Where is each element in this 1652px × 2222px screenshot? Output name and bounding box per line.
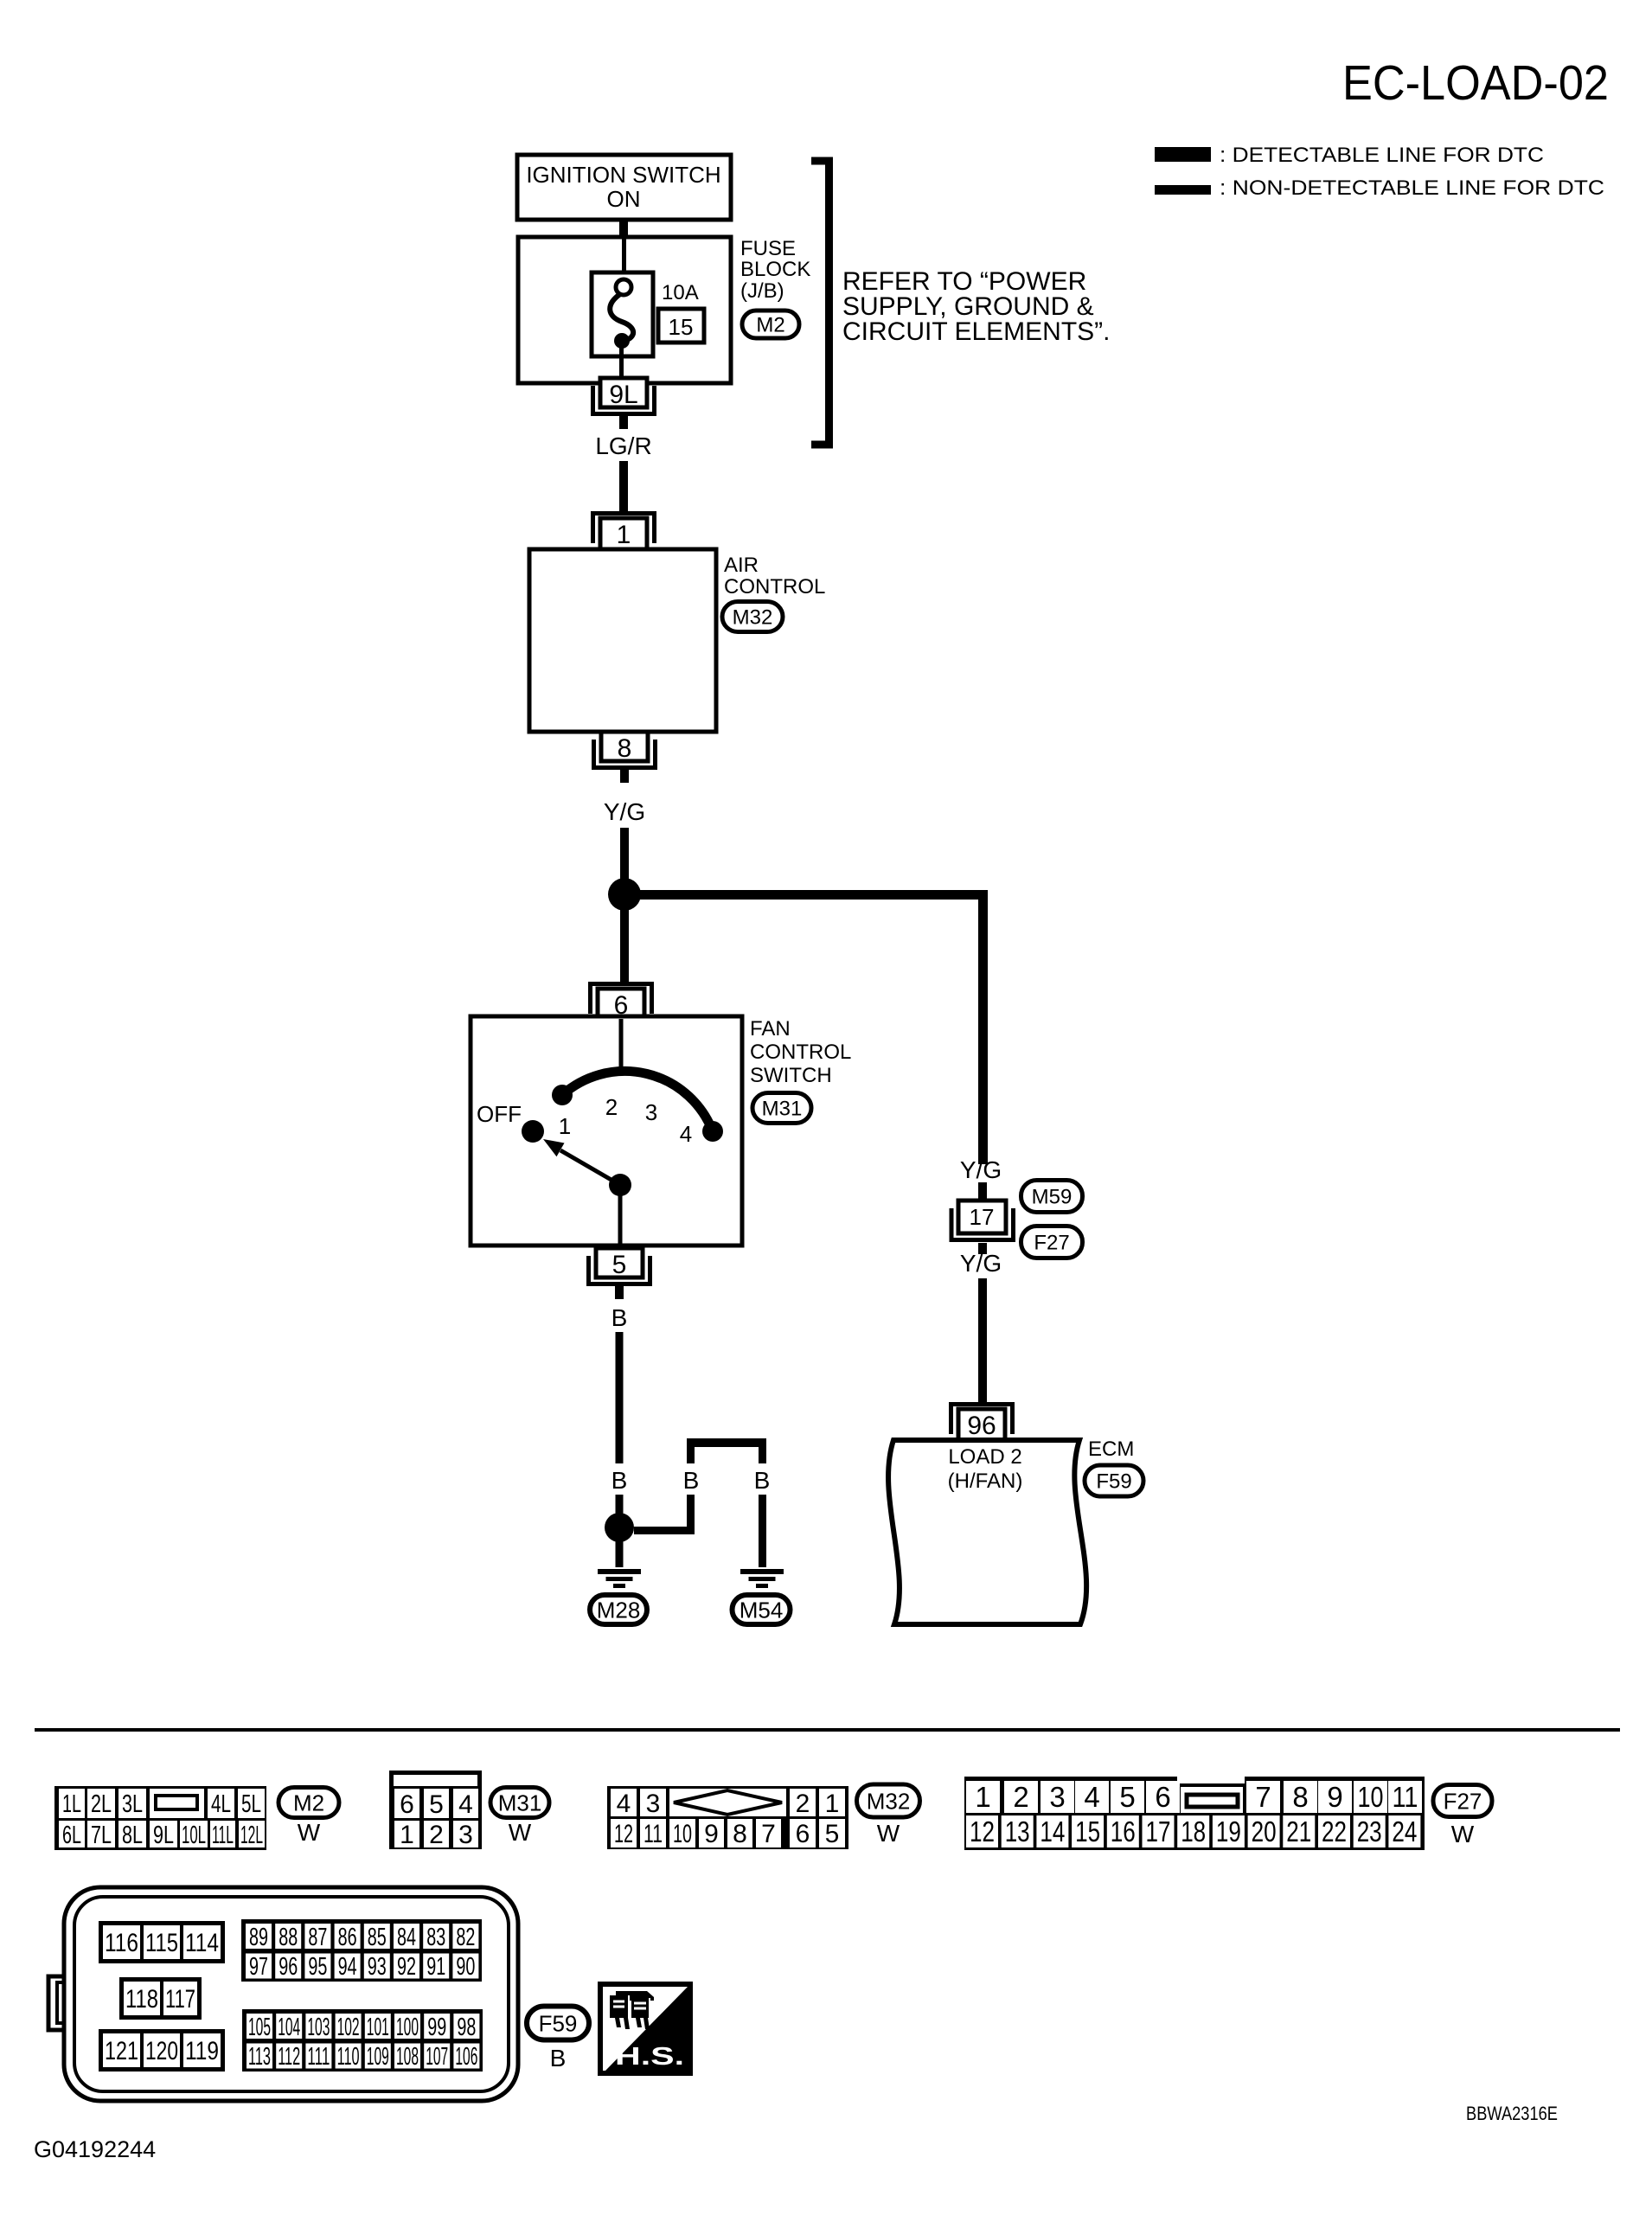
svg-text:107: 107 [426, 2043, 448, 2071]
svg-text:F59: F59 [1096, 1470, 1131, 1494]
svg-text:G04192244: G04192244 [34, 2136, 156, 2162]
svg-text:ECM: ECM [1088, 1438, 1134, 1461]
svg-text:Y/G: Y/G [604, 798, 645, 825]
wire: bridge top horizontal [687, 1438, 766, 1447]
connector terminal 96 (ECM LOAD 2) [951, 1405, 1013, 1441]
svg-text:W: W [877, 1820, 900, 1847]
fuse number 15 box [658, 309, 704, 343]
svg-text:22: 22 [1322, 1815, 1347, 1847]
svg-text:EC-LOAD-02: EC-LOAD-02 [1342, 55, 1609, 111]
svg-text:5: 5 [825, 1820, 840, 1848]
svg-text:17: 17 [970, 1204, 995, 1230]
svg-text:8L: 8L [122, 1822, 143, 1849]
svg-text:113: 113 [248, 2043, 271, 2071]
svg-text:M32: M32 [733, 606, 773, 630]
svg-text:1: 1 [400, 1821, 414, 1849]
svg-text:109: 109 [367, 2043, 389, 2071]
wire: connector 17 to Y/G label [978, 1243, 987, 1254]
svg-text:116: 116 [105, 1929, 138, 1957]
svg-text:1: 1 [825, 1790, 840, 1818]
svg-text:ON: ON [607, 186, 641, 212]
svg-text:B: B [683, 1467, 700, 1494]
svg-text:15: 15 [669, 314, 694, 340]
svg-text:93: 93 [368, 1953, 387, 1981]
svg-text:2: 2 [1013, 1781, 1028, 1813]
svg-text:87: 87 [308, 1924, 327, 1951]
svg-text:W: W [1451, 1821, 1475, 1847]
svg-text:2: 2 [429, 1821, 444, 1849]
svg-text:98: 98 [457, 2014, 476, 2041]
svg-text:5: 5 [612, 1251, 627, 1279]
svg-text:FUSE: FUSE [740, 237, 796, 260]
svg-text:3: 3 [1049, 1781, 1065, 1813]
wire: B to ground junction [616, 1495, 624, 1516]
svg-text:120: 120 [145, 2037, 178, 2065]
svg-text:IGNITION SWITCH: IGNITION SWITCH [526, 162, 720, 188]
svg-text:W: W [298, 1819, 321, 1846]
svg-text:M31: M31 [762, 1098, 803, 1121]
svg-text:6: 6 [400, 1790, 414, 1819]
svg-text:8: 8 [733, 1820, 747, 1848]
svg-text:: NON-DETECTABLE LINE FOR DTC: : NON-DETECTABLE LINE FOR DTC [1220, 176, 1604, 200]
svg-text:20: 20 [1252, 1815, 1277, 1847]
svg-text:103: 103 [307, 2014, 330, 2041]
legend: non-detectable line sample bar [1155, 185, 1211, 195]
svg-text:OFF: OFF [477, 1101, 522, 1127]
wire: wiper pivot to pin 5 [618, 1185, 623, 1245]
fuse block (J/B) box M2 [518, 237, 731, 383]
wire: Y/G down to ECM pin 96 [978, 1278, 987, 1402]
wire: bridge right vertical upper [759, 1440, 766, 1463]
svg-text:9L: 9L [609, 381, 637, 409]
fuse symbol [610, 279, 633, 349]
svg-text:M31: M31 [498, 1790, 542, 1815]
pinout F59 pin grid 105-98 / 113-106 [242, 2009, 483, 2072]
ground junction node [605, 1513, 634, 1542]
svg-text:M2: M2 [756, 314, 784, 337]
svg-text:4L: 4L [211, 1790, 231, 1818]
connector terminal 1 (air control input) [593, 514, 655, 550]
svg-text:15: 15 [1075, 1815, 1100, 1847]
svg-text:CIRCUIT ELEMENTS”.: CIRCUIT ELEMENTS”. [842, 317, 1110, 346]
ground symbol M54 [740, 1569, 784, 1588]
svg-text:9: 9 [1327, 1781, 1342, 1813]
svg-text:117: 117 [165, 1985, 195, 2014]
svg-text:2: 2 [605, 1094, 618, 1120]
svg-text:4: 4 [617, 1790, 631, 1818]
connector terminal 8 (air control output) [594, 732, 656, 783]
inline connector terminal 17 [951, 1201, 1014, 1240]
svg-text:4: 4 [1084, 1781, 1099, 1813]
svg-text:5L: 5L [241, 1790, 261, 1818]
svg-text:11: 11 [644, 1820, 663, 1848]
wire: bridge right vertical to M54 ground [759, 1495, 766, 1567]
svg-text:106: 106 [455, 2043, 477, 2071]
svg-text:96: 96 [279, 1953, 298, 1981]
svg-text:100: 100 [396, 2014, 419, 2041]
svg-text:18: 18 [1181, 1815, 1206, 1847]
pinout F59 pin group 121-119 [99, 2029, 225, 2072]
wire: ignition switch to fuse block [619, 220, 628, 237]
wire: Y/G stub to connector 17 [978, 1182, 987, 1200]
connector oval F59 [1085, 1465, 1143, 1496]
svg-text:102: 102 [337, 2014, 360, 2041]
svg-text:118: 118 [125, 1985, 158, 2014]
legend: detectable line sample bar [1155, 147, 1211, 162]
switch position labels [477, 1094, 692, 1147]
svg-text:12: 12 [614, 1820, 633, 1848]
svg-text:(J/B): (J/B) [740, 279, 784, 303]
svg-text:108: 108 [396, 2043, 419, 2071]
separator rule [35, 1728, 1620, 1732]
svg-text:23: 23 [1357, 1815, 1382, 1847]
ground oval M28 [590, 1595, 647, 1624]
svg-text:H.S.: H.S. [615, 2043, 684, 2071]
svg-text:6: 6 [1155, 1781, 1170, 1813]
svg-text:W: W [509, 1819, 532, 1846]
label AIR CONTROL [724, 554, 825, 599]
wire: LG/R to air control pin 1 [619, 461, 628, 511]
svg-text:F59: F59 [539, 2010, 578, 2036]
svg-text:121: 121 [105, 2037, 138, 2065]
svg-text:3: 3 [458, 1821, 473, 1849]
pinout F59 ECM connector housing [48, 1887, 518, 2101]
pinout M32 connector [607, 1786, 848, 1849]
svg-text:10: 10 [1358, 1781, 1384, 1813]
svg-text:17: 17 [1146, 1815, 1171, 1847]
svg-text:105: 105 [248, 2014, 271, 2041]
svg-text:SWITCH: SWITCH [750, 1064, 832, 1087]
pinout oval F27 [1433, 1785, 1492, 1817]
svg-text:11: 11 [1393, 1781, 1418, 1813]
wire: pin 6 to rotor arc [619, 1019, 624, 1073]
svg-text:B: B [611, 1467, 628, 1494]
connector oval M2 [742, 311, 799, 338]
svg-text:F27: F27 [1034, 1232, 1069, 1255]
svg-text:: DETECTABLE LINE FOR DTC: : DETECTABLE LINE FOR DTC [1220, 144, 1544, 167]
switch position OFF contact [522, 1120, 544, 1143]
svg-text:LOAD 2: LOAD 2 [948, 1445, 1021, 1469]
wire: junction to M28 ground [616, 1540, 624, 1567]
svg-text:CONTROL: CONTROL [724, 575, 825, 599]
svg-text:M54: M54 [740, 1597, 784, 1623]
svg-text:13: 13 [1005, 1815, 1030, 1847]
wire: junction to right branch (horizontal) [624, 890, 988, 900]
junction node (Y/G splice) [608, 878, 641, 911]
svg-text:85: 85 [368, 1924, 387, 1951]
svg-text:BBWA2316E: BBWA2316E [1466, 2103, 1558, 2124]
svg-text:3L: 3L [122, 1790, 143, 1818]
connector oval M32 [722, 602, 783, 632]
reference bracket [811, 161, 829, 445]
wire: bridge left vertical upper [687, 1440, 695, 1463]
air control box M32 [529, 549, 716, 732]
fuse 15 inner box [592, 272, 653, 356]
svg-text:4: 4 [680, 1121, 692, 1147]
connector oval M31 [752, 1093, 811, 1124]
ECM body (torn sheet shape) F59 [888, 1440, 1086, 1624]
svg-text:AIR: AIR [724, 554, 759, 577]
svg-text:7L: 7L [91, 1822, 112, 1849]
svg-text:1L: 1L [62, 1790, 81, 1818]
svg-text:99: 99 [427, 2014, 446, 2041]
svg-text:91: 91 [426, 1953, 445, 1981]
svg-text:119: 119 [185, 2037, 219, 2065]
svg-text:12L: 12L [240, 1822, 263, 1849]
svg-text:9: 9 [704, 1820, 719, 1848]
pinout F59 pin group 116-114 [99, 1921, 225, 1963]
ground symbol M28 [598, 1569, 641, 1588]
svg-text:LG/R: LG/R [595, 432, 651, 459]
svg-text:(H/FAN): (H/FAN) [948, 1470, 1023, 1493]
svg-text:97: 97 [249, 1953, 268, 1981]
svg-text:M32: M32 [867, 1788, 911, 1814]
svg-text:6L: 6L [62, 1822, 81, 1849]
svg-text:96: 96 [967, 1412, 996, 1440]
svg-text:92: 92 [397, 1953, 416, 1981]
switch wiper arm with arrow [543, 1139, 631, 1196]
pinout oval M31 [490, 1788, 549, 1818]
svg-text:5: 5 [429, 1790, 444, 1819]
wire: B down long segment [616, 1332, 624, 1463]
svg-text:9L: 9L [153, 1822, 174, 1849]
svg-text:3: 3 [645, 1099, 657, 1125]
svg-text:Y/G: Y/G [960, 1250, 1002, 1277]
svg-text:2L: 2L [91, 1790, 112, 1818]
svg-text:FAN: FAN [750, 1017, 791, 1041]
pinout M2 connector [54, 1786, 266, 1850]
svg-text:8: 8 [618, 734, 632, 763]
svg-text:14: 14 [1040, 1815, 1065, 1847]
wire: junction to bridge (horizontal) [634, 1527, 695, 1534]
svg-text:6: 6 [796, 1820, 810, 1848]
svg-text:12: 12 [970, 1815, 995, 1847]
note: refer to power supply [842, 267, 1110, 346]
svg-text:1: 1 [559, 1113, 571, 1139]
svg-text:B: B [550, 2045, 567, 2072]
connector oval F27 [1021, 1226, 1083, 1258]
svg-text:16: 16 [1111, 1815, 1136, 1847]
wire: fuse to 9L [619, 346, 624, 381]
svg-text:7: 7 [761, 1820, 776, 1848]
svg-text:112: 112 [278, 2043, 300, 2071]
svg-text:24: 24 [1392, 1815, 1417, 1847]
wire: bridge left vertical lower [687, 1495, 695, 1531]
svg-text:19: 19 [1216, 1815, 1241, 1847]
svg-text:B: B [611, 1304, 628, 1331]
svg-text:104: 104 [278, 2014, 300, 2041]
svg-text:M2: M2 [293, 1790, 324, 1815]
svg-text:4: 4 [458, 1790, 473, 1819]
fan control switch box M31 [471, 1016, 742, 1245]
svg-text:101: 101 [367, 2014, 389, 2041]
svg-text:10L: 10L [182, 1822, 206, 1849]
svg-text:83: 83 [426, 1924, 445, 1951]
connector terminal 9L (fuse block output) [593, 378, 655, 429]
pinout oval F59 [527, 2007, 589, 2040]
pinout oval M32 [857, 1784, 920, 1817]
pinout M31 connector [389, 1771, 482, 1849]
svg-text:1: 1 [617, 521, 631, 549]
ground oval M54 [733, 1595, 791, 1624]
svg-text:7: 7 [1255, 1781, 1271, 1813]
svg-text:11L: 11L [212, 1822, 234, 1849]
svg-text:10: 10 [673, 1820, 692, 1848]
wire: right branch vertical down [978, 890, 988, 1164]
svg-text:88: 88 [279, 1924, 298, 1951]
svg-text:89: 89 [249, 1924, 268, 1951]
svg-text:115: 115 [145, 1929, 178, 1957]
svg-text:1: 1 [975, 1781, 990, 1813]
connector terminal 5 (fan switch output) [589, 1248, 650, 1299]
connector terminal 6 (fan switch input) [591, 984, 652, 1021]
wire: Y/G down to junction [620, 828, 629, 880]
svg-text:82: 82 [456, 1924, 475, 1951]
svg-text:94: 94 [338, 1953, 357, 1981]
pinout F27 connector [964, 1773, 1425, 1850]
svg-text:BLOCK: BLOCK [740, 258, 810, 281]
label LOAD 2 (H/FAN) [948, 1445, 1023, 1493]
svg-text:114: 114 [185, 1929, 219, 1957]
svg-text:2: 2 [796, 1790, 810, 1818]
wire: into fuse [622, 239, 626, 282]
pinout oval M2 [279, 1788, 339, 1818]
svg-text:10A: 10A [662, 281, 699, 304]
svg-text:84: 84 [397, 1924, 416, 1951]
svg-text:B: B [754, 1467, 771, 1494]
svg-text:F27: F27 [1444, 1788, 1482, 1814]
ignition switch box [517, 155, 731, 220]
svg-text:3: 3 [646, 1790, 661, 1818]
svg-text:86: 86 [338, 1924, 357, 1951]
rotary switch arc [552, 1071, 723, 1142]
label FUSE BLOCK (J/B) [740, 237, 810, 303]
svg-text:110: 110 [337, 2043, 360, 2071]
svg-text:90: 90 [456, 1953, 475, 1981]
pinout F59 pin group 118-117 [119, 1977, 202, 2020]
wire: junction down to fan switch pin 6 [620, 908, 629, 982]
svg-text:5: 5 [1119, 1781, 1135, 1813]
label FAN CONTROL SWITCH [750, 1017, 851, 1087]
svg-text:M59: M59 [1032, 1186, 1073, 1209]
connector oval M59 [1021, 1181, 1083, 1213]
svg-text:Y/G: Y/G [960, 1156, 1002, 1183]
svg-text:CONTROL: CONTROL [750, 1041, 851, 1064]
svg-text:95: 95 [308, 1953, 327, 1981]
svg-text:M28: M28 [597, 1597, 641, 1623]
H.S. (harness side) badge [600, 1984, 690, 2073]
svg-text:8: 8 [1292, 1781, 1308, 1813]
svg-text:111: 111 [307, 2043, 330, 2071]
svg-text:21: 21 [1286, 1815, 1311, 1847]
pinout F59 pin grid 89-82 / 97-90 [241, 1919, 482, 1982]
